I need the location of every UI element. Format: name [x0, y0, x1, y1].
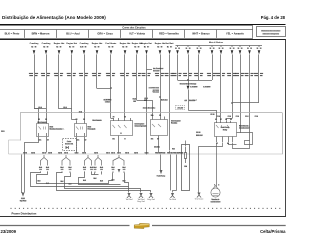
S2 bottom pin label [157, 138, 159, 139]
node [34, 108, 36, 110]
wire K3 loop right [233, 141, 250, 149]
wire label BLK [112, 179, 114, 180]
wire name label at x=169.5 (RED 140 / 0,5) [164, 73, 173, 76]
svg-text:RED 540: RED 540 [152, 92, 159, 94]
connector label C3 4 [145, 152, 149, 153]
wire jog 59-71 [59, 108, 72, 110]
svg-text:30: 30 [113, 116, 115, 118]
svg-text:30: 30 [250, 48, 252, 50]
svg-text:Engine Hot: Engine Hot [67, 42, 78, 45]
svg-text:4,0: 4,0 [185, 99, 187, 102]
svg-text:Interr. Desemb.: Interr. Desemb. [143, 107, 156, 110]
wire name label at x=34 (RED 140 / 0,5) [29, 73, 38, 76]
svg-text:C1 3: C1 3 [111, 152, 115, 154]
wire to ground G103 [199, 147, 211, 193]
svg-text:30: 30 [213, 48, 215, 50]
svg-text:Diodos 6A: Diodos 6A [65, 142, 74, 145]
feed wire head at x=97: Engine Hot [92, 42, 103, 54]
label column right of tall box [196, 132, 200, 133]
wire comb bus at y80 [178, 80, 213, 82]
wire S2 out [158, 136, 160, 153]
dotted separator [11, 207, 284, 209]
splice at x=66 [60, 155, 72, 173]
wire label BLK [123, 180, 125, 181]
connector label F10 30 [155, 152, 160, 153]
svg-text:30: 30 [247, 48, 249, 50]
connector label C1 4 [82, 152, 86, 153]
ignition switch box [111, 116, 148, 136]
feed wire head at x=59: Engine Hot [54, 42, 65, 54]
svg-text:140: 140 [112, 169, 115, 171]
connector label F5 30 [179, 152, 184, 153]
bus drop wire at x=259 [257, 45, 262, 54]
svg-text:30a: 30a [151, 115, 154, 117]
off-page arrow bottom left [22, 193, 25, 197]
label 30A near wire 84 [79, 111, 82, 112]
label cluster near wire 160 [150, 87, 159, 88]
relay K2 (Mini Relé) [75, 118, 102, 136]
wire name label at x=137 (RED 140 / 0,5) [132, 73, 141, 76]
connector label F18 30 [173, 152, 178, 153]
svg-text:C1 1: C1 1 [106, 152, 110, 154]
svg-text:30: 30 [200, 48, 202, 50]
connector label at wire 232 [228, 116, 231, 117]
wire K1 pin to connector row [46, 137, 48, 153]
schematic top border [0, 39, 286, 41]
svg-text:Fuel Heater: Fuel Heater [106, 42, 117, 45]
svg-text:C3 2: C3 2 [75, 152, 79, 154]
off-page connector arrow (Fuel Pump feed) [160, 170, 163, 174]
svg-text:Números dos circuitos: Números dos circuitos [262, 29, 280, 32]
junction 160/97 [159, 96, 161, 98]
svg-text:B+: B+ [108, 46, 110, 48]
bus drop wire at x=199 [197, 45, 202, 54]
svg-text:30: 30 [197, 48, 199, 50]
splice arrow at 119 [118, 169, 121, 173]
feed wire head at x=160: Engine Hot [155, 42, 166, 54]
feed wire head at x=146.5: Engine Hot [141, 42, 152, 54]
svg-text:87: 87 [157, 138, 159, 140]
feed wire head at x=111: Fuel Heater [106, 42, 117, 54]
wire vertical x=125 [124, 54, 126, 118]
connector label C2 2 [94, 152, 98, 153]
label Neutral Gear Change [180, 83, 196, 84]
connector label C2 4 [58, 152, 62, 153]
svg-text:B+: B+ [167, 46, 169, 48]
wire 170 down [170, 155, 172, 191]
svg-text:BLU = Azul: BLU = Azul [66, 32, 80, 36]
connector label C3 8 [48, 152, 52, 153]
wire label BLK [94, 178, 96, 179]
wire vertical x=240 [240, 54, 242, 133]
svg-text:BRN = Marrom: BRN = Marrom [32, 32, 50, 36]
svg-text:C2 3: C2 3 [134, 152, 138, 154]
wire 240 loop right [241, 133, 253, 145]
svg-text:87: 87 [220, 119, 222, 121]
junction comb node [187, 79, 189, 81]
svg-text:RED = Vermelho: RED = Vermelho [159, 32, 179, 36]
connector label F10 30 [167, 152, 172, 153]
wire name label at x=240 (RED 140 / 0,5) [235, 73, 244, 76]
svg-text:BLK 4,0: BLK 4,0 [161, 99, 167, 102]
svg-text:Distribuição de Alimentação (A: Distribuição de Alimentação (Ano Modelo … [2, 15, 106, 20]
svg-text:30: 30 [233, 48, 235, 50]
svg-text:BLK/WHT: BLK/WHT [190, 86, 197, 88]
svg-text:Hot Batt: Hot Batt [166, 42, 174, 45]
feed wire head at x=125: Engine Hot [120, 42, 131, 54]
wire gauge label [184, 100, 187, 101]
fuse holder box F (tall) [182, 145, 190, 191]
label near wire 199 [192, 86, 198, 87]
svg-text:30: 30 [175, 48, 177, 50]
svg-text:B+: B+ [43, 46, 45, 48]
connector label at wire 221 [217, 116, 220, 117]
fuel pump pin labels [214, 184, 215, 185]
svg-text:Eng Grd: Eng Grd [137, 200, 144, 203]
svg-text:BLK = Preto: BLK = Preto [5, 32, 20, 36]
wire 176 down [176, 155, 178, 191]
svg-text:87a: 87a [77, 140, 80, 142]
svg-text:Engine Hot: Engine Hot [155, 42, 166, 45]
svg-text:Power Distribution: Power Distribution [12, 212, 37, 216]
svg-text:Cranking: Cranking [30, 43, 39, 45]
svg-text:140: 140 [39, 169, 42, 171]
svg-text:C1 4: C1 4 [82, 151, 86, 154]
legend table: Cores dos Circuitos [0, 26, 253, 39]
LPG-INT bubble [176, 106, 185, 110]
svg-text:30: 30 [83, 119, 85, 121]
connector label C3 2 [75, 152, 79, 153]
connector label at wire 240 [236, 116, 239, 117]
svg-text:RED 302: RED 302 [196, 135, 203, 137]
wire jog 137-152 [137, 101, 153, 117]
wire name label at x=212 (RED 140 / 0,5) [207, 73, 216, 76]
wire jog 97-111 [97, 88, 111, 90]
svg-text:240: 240 [133, 100, 136, 103]
svg-text:Engine Hot: Engine Hot [141, 42, 152, 45]
wire S1 out [118, 136, 120, 153]
wire to relay K3 pin 86 [189, 111, 217, 121]
svg-text:Cranking: Cranking [42, 43, 51, 45]
svg-text:Fuel Pump: Fuel Pump [157, 176, 166, 178]
ground G103 [147, 193, 154, 201]
wire label BLK/WHT [189, 100, 195, 101]
chevrolet bowtie logo [134, 223, 149, 228]
svg-text:140: 140 [69, 169, 72, 171]
bus drop wire at x=249.5 [247, 45, 252, 54]
connector label at wire 259 [255, 116, 258, 117]
svg-text:C2 8: C2 8 [1, 131, 5, 133]
svg-text:85: 85 [38, 119, 40, 121]
svg-text:30: 30 [260, 48, 262, 50]
svg-text:VLT = Violeta: VLT = Violeta [129, 32, 145, 36]
svg-text:140: 140 [83, 169, 86, 171]
svg-text:140: 140 [90, 169, 93, 171]
svg-text:LPG-INT: LPG-INT [177, 108, 183, 110]
bus wire Main & Brakes [176, 45, 263, 47]
svg-text:B+: B+ [157, 46, 159, 48]
footer rule right [152, 225, 286, 227]
wire label BLK [38, 180, 40, 181]
svg-text:85: 85 [230, 119, 232, 121]
label above S2 [143, 107, 156, 108]
svg-text:23/2009: 23/2009 [1, 229, 17, 234]
svg-text:30: 30 [257, 48, 259, 50]
svg-text:YEL = Amarelo: YEL = Amarelo [226, 32, 244, 36]
wire K3 out b [211, 143, 223, 147]
label G102 [21, 198, 24, 199]
svg-text:85: 85 [227, 143, 229, 145]
svg-text:F10 30: F10 30 [167, 152, 173, 154]
svg-text:C2 6: C2 6 [63, 107, 67, 109]
wire name label at x=125 (RED 140 / 0,5) [120, 73, 129, 76]
wire name label at x=249.5 (RED 140 / 0,5) [244, 73, 253, 76]
ground G102b [137, 193, 145, 203]
junction 232/103 [231, 102, 233, 104]
svg-text:Pág. 4 de 28: Pág. 4 de 28 [261, 15, 286, 20]
wire to ground G105 [173, 191, 177, 193]
svg-text:30: 30 [210, 48, 212, 50]
bus drop wire at x=177.5 [175, 45, 180, 54]
wire name label at x=199 (RED 140 / 0,5) [194, 73, 203, 76]
svg-text:30: 30 [178, 48, 180, 50]
svg-text:BLK/WHT: BLK/WHT [203, 86, 210, 88]
wire name label at x=259 (RED 140 / 0,5) [254, 73, 263, 76]
ground G105 [169, 193, 177, 201]
wire stub 169.5 [169, 151, 171, 153]
relay K1 (Mini Relé, Bomba de Combustível) [37, 118, 65, 136]
svg-text:B+: B+ [69, 46, 71, 48]
svg-text:Cranking: Cranking [80, 43, 89, 45]
svg-text:C1 6: C1 6 [64, 152, 68, 154]
svg-text:Main & Brakes: Main & Brakes [209, 41, 224, 44]
wire 71.8 into K2 [72, 120, 77, 121]
connector label C1 6 [64, 152, 68, 153]
svg-text:30a: 30a [151, 138, 154, 140]
svg-text:C1 30: C1 30 [210, 114, 214, 116]
svg-text:Celta/Prisma: Celta/Prisma [260, 229, 286, 234]
labels near wire 137 low [133, 98, 136, 99]
svg-text:30: 30 [225, 119, 227, 121]
svg-text:Top Rail: Top Rail [20, 200, 27, 202]
svg-text:C2 30: C2 30 [196, 132, 201, 134]
wire left rail down [24, 153, 26, 193]
svg-text:4 0,5: 4 0,5 [106, 101, 110, 104]
wire vertical x=177.5 [177, 54, 179, 80]
svg-text:30: 30 [159, 115, 161, 117]
wire K2 out a [76, 137, 78, 153]
svg-text:Bomba Combust.: Bomba Combust. [50, 128, 65, 131]
feed wire head at x=71.8: Engine Hot [67, 42, 78, 54]
wire jog 259-232 [233, 102, 259, 104]
wire K1 to left rail [25, 137, 39, 153]
svg-text:30: 30 [241, 48, 243, 50]
wire name label at x=232 (RED 140 / 0,5) [227, 73, 236, 76]
wire to fuel pump arrow [160, 155, 162, 171]
svg-text:Combustível: Combustível [210, 200, 221, 203]
svg-text:140: 140 [46, 169, 49, 171]
S1 bottom pin label [124, 138, 125, 139]
schematic right border [285, 39, 287, 217]
svg-text:C2 4: C2 4 [58, 151, 62, 154]
svg-text:F7 30: F7 30 [161, 152, 166, 154]
svg-text:C3 6: C3 6 [23, 152, 27, 154]
label far left C2 8 [1, 130, 4, 131]
connector label C1 5 [125, 152, 129, 153]
wire K3 85 stub [229, 143, 237, 145]
svg-text:C2 2: C2 2 [94, 152, 98, 154]
svg-text:140: 140 [94, 169, 97, 171]
wire 188 mid [188, 90, 190, 111]
connector label C3 6 [23, 152, 27, 153]
wire vertical x=71.8 [71, 54, 73, 119]
svg-text:B+: B+ [134, 46, 136, 48]
wire vertical x=97 [96, 54, 98, 88]
svg-text:87: 87 [85, 140, 87, 142]
wire vertical x=199 [198, 54, 200, 80]
svg-text:30: 30 [222, 48, 224, 50]
svg-text:Engine Hot: Engine Hot [92, 42, 103, 45]
connector label C2 3 [134, 152, 138, 153]
splice at x=44 [39, 155, 50, 173]
wire to relay K1 pin 85 [35, 109, 39, 121]
bus drop wire at x=221 [219, 45, 224, 54]
wire 125 into S1 [124, 119, 126, 121]
wire K3 to fuel pump [216, 143, 218, 187]
schematic bottom border [0, 216, 286, 218]
wire vertical x=59 [58, 54, 60, 109]
svg-text:Mini Switch: Mini Switch [92, 119, 101, 122]
svg-text:Engine Hot: Engine Hot [54, 42, 65, 45]
ground G101 [126, 193, 134, 201]
wire vertical x=259 [258, 54, 260, 103]
wire vertical x=188 [188, 54, 190, 80]
wire vertical x=111 [110, 54, 112, 118]
wire name label at x=111 (RED 140 / 0,5) [106, 73, 115, 76]
fuel pump M1 [210, 186, 221, 204]
svg-text:87: 87 [47, 140, 49, 142]
svg-text:30: 30 [45, 119, 47, 121]
label LPG-INT [178, 107, 183, 108]
svg-text:F30: F30 [172, 149, 175, 151]
S1 bottom pin label [112, 138, 114, 139]
wire vertical x=137 [136, 54, 138, 100]
feed wire head at x=169.5: Hot Batt [166, 42, 174, 54]
wire name label at x=146.5 (RED 140 / 0,5) [141, 73, 150, 76]
wire 111 into S1 [111, 118, 114, 120]
feed wire head at x=34: Cranking [30, 43, 39, 54]
diode box (Diodo) [63, 139, 77, 151]
labels near K1/K2 outputs [39, 139, 41, 140]
tall fuse box feeder stub [185, 141, 187, 147]
wire name label at x=59 (RED 140 / 0,5) [54, 73, 63, 76]
wire K2 out b [84, 137, 86, 153]
off-page arrow on wire 188 [188, 81, 190, 86]
wire label BLK [69, 183, 71, 184]
feed wire head at x=137: Engine Hot [132, 42, 143, 54]
connector label C1 2 [42, 152, 46, 153]
footer rule left [0, 225, 130, 227]
svg-text:C1 2: C1 2 [42, 152, 46, 154]
wire label BLK [100, 180, 102, 181]
svg-text:Tor Rasl: Tor Rasl [126, 198, 134, 201]
switch box S2 [151, 114, 181, 135]
feed wire head at x=84: Cranking [80, 43, 89, 54]
S2 bottom pin label [151, 138, 153, 139]
wire label BLK [83, 180, 85, 181]
relay K3 (Relé Bomba) [215, 119, 251, 145]
wire name label at x=188 (RED 140 / 0,5) [183, 73, 192, 76]
svg-text:WHT = Branco: WHT = Branco [192, 32, 210, 36]
svg-text:15a: 15a [112, 138, 115, 140]
bus drop wire at x=188 [186, 45, 191, 54]
svg-text:2: 2 [218, 184, 219, 186]
svg-text:B+: B+ [31, 46, 33, 48]
svg-text:Partida: Partida [171, 122, 178, 125]
wire vertical x=34 [34, 54, 36, 109]
wire vertical x=169.5 [169, 54, 171, 150]
svg-text:Engine Hot: Engine Hot [120, 42, 131, 45]
svg-text:Mini Switch: Mini Switch [37, 121, 46, 124]
svg-text:Relay: Relay [223, 129, 228, 131]
wire name label at x=84 (RED 140 / 0,5) [79, 73, 88, 76]
title rule [0, 24, 286, 26]
wire jog 232-226 [227, 119, 233, 121]
wire left rail 2 [22, 155, 23, 193]
wire vertical x=84 [84, 54, 86, 120]
svg-text:Combustível: Combustível [239, 127, 250, 130]
svg-text:C3 8: C3 8 [48, 152, 52, 154]
wire name label at x=97 (RED 140 / 0,5) [92, 73, 101, 76]
bus drop wire at x=232 [230, 45, 235, 54]
svg-text:Neutral Gear Change: Neutral Gear Change [180, 82, 197, 85]
wire name label at x=177.5 (RED 140 / 0,5) [172, 73, 181, 76]
connector label C1 3 [111, 152, 115, 153]
svg-text:B+: B+ [56, 46, 58, 48]
svg-text:Chave Ignição: Chave Ignição [135, 125, 148, 128]
bottom-left routing loops [31, 173, 129, 193]
fuse block enclosure (dashed) [21, 113, 283, 141]
wire name label at x=71.8 (RED 140 / 0,5) [67, 73, 76, 76]
svg-text:30 20A: 30 20A [154, 146, 160, 149]
bus drop wire at x=212 [210, 45, 215, 54]
label near wire 212 [205, 86, 211, 87]
bus drop wire at x=240 [238, 45, 243, 54]
svg-text:Gnd Case: Gnd Case [195, 199, 204, 201]
svg-text:30: 30 [230, 48, 232, 50]
svg-text:87a: 87a [39, 140, 42, 142]
connector label F7 30 [161, 152, 166, 153]
svg-text:Principal: Principal [88, 129, 96, 131]
label fuel pump [157, 175, 165, 176]
svg-text:C1 5: C1 5 [125, 152, 129, 154]
label C1 30 [211, 114, 215, 115]
splice at x=119 [111, 155, 126, 173]
svg-text:30: 30 [186, 48, 188, 50]
svg-text:C2 1: C2 1 [117, 152, 121, 154]
wire label [161, 99, 168, 100]
wire 240 into relay K3 right [237, 132, 241, 134]
wire vertical x=221 [220, 54, 222, 120]
svg-text:B+: B+ [144, 46, 146, 48]
svg-text:30: 30 [219, 48, 221, 50]
svg-text:GRA = Cinza: GRA = Cinza [97, 32, 113, 36]
wire name label at x=160 (RED 140 / 0,5) [155, 73, 164, 76]
svg-text:30: 30 [238, 48, 240, 50]
svg-text:B+: B+ [94, 46, 96, 48]
connector label C2 1 [117, 152, 121, 153]
junction 111/88 [110, 87, 112, 89]
